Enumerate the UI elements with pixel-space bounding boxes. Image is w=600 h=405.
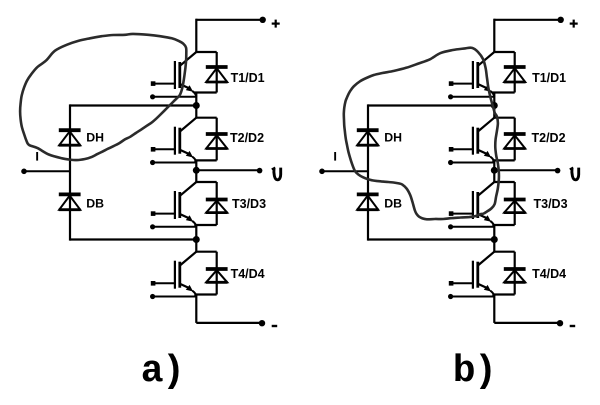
wire D3 branch loop bbox=[492, 182, 514, 225]
current-path loop (a) bbox=[20, 34, 186, 160]
node T1-T2 junction bbox=[193, 102, 200, 109]
wire clamp rail bottom bbox=[70, 238, 196, 240]
svg-text:T1/D1: T1/D1 bbox=[532, 71, 566, 85]
svg-text:T2/D2: T2/D2 bbox=[230, 131, 264, 145]
current-path loop (b) bbox=[344, 48, 499, 220]
node T3-T4 junction bbox=[193, 236, 200, 243]
node DC+ terminal bbox=[558, 17, 564, 23]
diode D4 bbox=[504, 269, 526, 282]
diode D3 bbox=[206, 200, 228, 213]
svg-text:a): a) bbox=[141, 350, 184, 393]
svg-text:T3/D3: T3/D3 bbox=[534, 197, 568, 211]
wire clamp rail top bbox=[368, 104, 494, 106]
wire output bbox=[196, 169, 259, 171]
transistor T3 (IGBT) bbox=[448, 182, 494, 229]
wire D1 branch loop bbox=[194, 52, 216, 93]
node output terminal bbox=[555, 168, 561, 174]
transistor T1 (IGBT) bbox=[448, 52, 494, 99]
schematic b) : NPC inverter leg bbox=[319, 17, 579, 327]
diode D4 bbox=[206, 269, 228, 282]
svg-text:DB: DB bbox=[86, 197, 104, 211]
node DC- terminal bbox=[259, 320, 265, 326]
node output terminal bbox=[257, 168, 263, 174]
wire input I bbox=[24, 170, 70, 172]
transistor T3 (IGBT) bbox=[150, 182, 196, 229]
node input terminal bbox=[21, 169, 27, 175]
wire D3 branch loop bbox=[194, 182, 216, 225]
label voltage v bbox=[272, 168, 281, 180]
wire DC- bus bbox=[494, 322, 560, 324]
wire clamp rail bottom bbox=[368, 238, 494, 240]
svg-text:DB: DB bbox=[384, 197, 402, 211]
svg-text:T2/D2: T2/D2 bbox=[532, 131, 566, 145]
wire D4 branch loop bbox=[194, 252, 216, 295]
wire clamp rail top bbox=[70, 104, 196, 106]
wire input I bbox=[322, 170, 368, 172]
diode DHb bbox=[357, 130, 379, 145]
diode D2 bbox=[206, 134, 228, 149]
wire clamp rail vertical bbox=[367, 104, 369, 240]
diode D1 bbox=[206, 67, 228, 82]
wire phase-leg interconnects bbox=[493, 93, 495, 323]
transistor T4 (IGBT) bbox=[448, 252, 494, 299]
label - bbox=[570, 325, 576, 327]
wire D1 branch loop bbox=[492, 52, 514, 93]
svg-text:DH: DH bbox=[384, 131, 402, 145]
label I bbox=[36, 152, 38, 161]
wire D2 branch loop bbox=[492, 118, 514, 161]
svg-text:T1/D1: T1/D1 bbox=[231, 71, 265, 85]
wire DC+ bus bbox=[196, 19, 262, 52]
node DC- terminal bbox=[557, 320, 563, 326]
schematic a) : NPC inverter leg bbox=[21, 17, 281, 327]
wire DC- bus bbox=[196, 322, 262, 324]
svg-text:T4/D4: T4/D4 bbox=[231, 267, 265, 281]
diode D2 bbox=[504, 134, 526, 149]
label + bbox=[570, 20, 578, 28]
transistor T2 (IGBT) bbox=[150, 118, 196, 165]
diode DBa bbox=[59, 194, 81, 209]
wire D2 branch loop bbox=[194, 118, 216, 161]
diode DBb bbox=[357, 194, 379, 209]
wire DC+ bus bbox=[494, 19, 560, 52]
node T1-T2 junction bbox=[491, 102, 498, 109]
node output junction bbox=[491, 167, 498, 174]
node input terminal bbox=[319, 169, 325, 175]
wire phase-leg interconnects bbox=[195, 93, 197, 323]
label - bbox=[272, 325, 278, 327]
wire output bbox=[494, 169, 557, 171]
label voltage v bbox=[570, 168, 579, 180]
svg-text:DH: DH bbox=[86, 131, 104, 145]
diode D3 bbox=[504, 200, 526, 213]
label + bbox=[272, 20, 280, 28]
diode D1 bbox=[504, 67, 526, 82]
svg-text:T3/D3: T3/D3 bbox=[232, 197, 266, 211]
wire clamp rail vertical bbox=[69, 104, 71, 240]
transistor T4 (IGBT) bbox=[150, 252, 196, 299]
svg-text:T4/D4: T4/D4 bbox=[532, 267, 566, 281]
diode DHa bbox=[59, 130, 81, 145]
node output junction bbox=[193, 167, 200, 174]
wire D4 branch loop bbox=[492, 252, 514, 295]
node DC+ terminal bbox=[260, 17, 266, 23]
label I bbox=[334, 152, 336, 161]
node T3-T4 junction bbox=[491, 236, 498, 243]
transistor T2 (IGBT) bbox=[448, 118, 494, 165]
svg-text:b): b) bbox=[453, 350, 496, 393]
transistor T1 (IGBT) bbox=[150, 52, 196, 99]
